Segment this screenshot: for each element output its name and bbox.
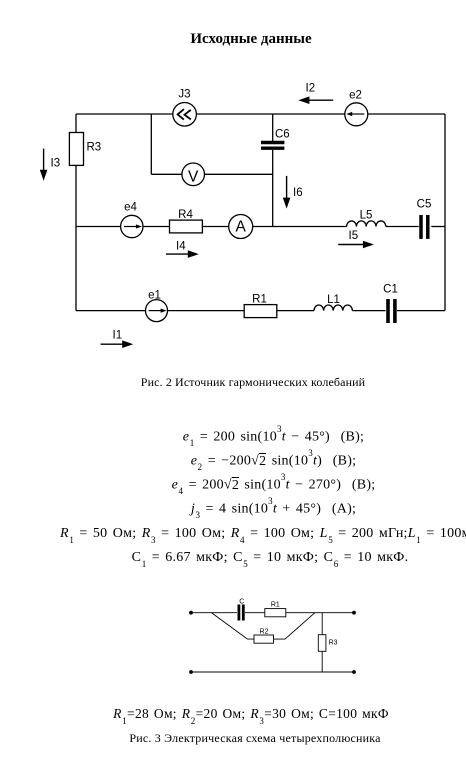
current arrow I2 xyxy=(298,96,333,104)
svg-text:C5: C5 xyxy=(417,199,432,211)
wire top middle segment xyxy=(196,113,344,115)
wire C to R1 xyxy=(245,612,265,614)
svg-text:C6: C6 xyxy=(275,129,290,141)
svg-text:R3: R3 xyxy=(329,640,338,647)
wire e4 to R4 xyxy=(143,226,170,228)
wire R4 to ammeter xyxy=(202,226,229,228)
wire mid-row left segment xyxy=(76,226,121,228)
diagonal wire right xyxy=(274,613,315,639)
svg-text:e4: e4 xyxy=(124,202,137,214)
wire R1 to right terminal xyxy=(286,612,354,614)
inductor L1 xyxy=(314,305,352,311)
current arrow I4 xyxy=(166,250,199,258)
ammeter A xyxy=(229,215,253,239)
resistor R1 xyxy=(265,609,286,617)
wire bottom left segment xyxy=(76,310,146,312)
title xyxy=(18,31,466,48)
wire ammeter to L5 xyxy=(252,226,346,228)
capacitor C xyxy=(239,605,243,621)
current arrow I3 xyxy=(40,149,48,181)
svg-text:R1: R1 xyxy=(271,602,280,609)
wire R1 to L1 xyxy=(277,310,314,312)
wire top right segment xyxy=(368,113,445,115)
resistor R3 xyxy=(69,133,83,166)
wire v-row right xyxy=(205,173,273,175)
svg-text:I2: I2 xyxy=(306,83,316,95)
svg-text:V: V xyxy=(188,168,199,185)
wire left top (to R3) xyxy=(75,114,77,133)
wire C1 to right xyxy=(397,310,445,312)
voltmeter V xyxy=(182,163,205,186)
wire L5 to C5 xyxy=(386,226,419,228)
capacitor C5 xyxy=(421,215,428,239)
svg-text:R1: R1 xyxy=(252,294,267,306)
terminal dot bottom-right xyxy=(352,670,356,674)
svg-text:C: C xyxy=(239,599,244,606)
caption fig 2 xyxy=(20,375,466,390)
wire C6 branch top xyxy=(272,114,274,141)
inductor L5 xyxy=(347,221,386,227)
terminal dot top-right xyxy=(352,611,356,615)
svg-text:I1: I1 xyxy=(113,330,123,342)
svg-text:R3: R3 xyxy=(87,142,102,154)
terminal dot bottom-left xyxy=(189,670,193,674)
svg-text:J3: J3 xyxy=(178,89,190,101)
svg-text:I6: I6 xyxy=(293,187,303,199)
svg-text:A: A xyxy=(236,219,247,236)
svg-text:I3: I3 xyxy=(51,158,61,170)
voltage source e4 xyxy=(121,215,143,237)
wire bottom xyxy=(191,671,354,673)
svg-text:R2: R2 xyxy=(260,629,269,636)
equations xyxy=(40,427,466,446)
wire e1 to R1 xyxy=(168,310,245,312)
current source J3 xyxy=(173,103,197,127)
svg-text:e1: e1 xyxy=(148,290,161,302)
capacitor C6 xyxy=(261,143,284,149)
current arrow I5 xyxy=(338,241,374,249)
svg-text:I4: I4 xyxy=(176,241,186,253)
voltage source e2 xyxy=(345,103,368,126)
wire L1 to C1 xyxy=(352,310,385,312)
svg-text:R4: R4 xyxy=(178,209,193,221)
current arrow I1 xyxy=(101,340,134,348)
wire R3 branch bottom xyxy=(321,651,323,672)
capacitor C1 xyxy=(388,299,395,323)
current arrow I6 xyxy=(283,176,291,209)
svg-text:I5: I5 xyxy=(349,230,359,242)
voltage source e1 xyxy=(146,300,168,322)
wire C5 to right xyxy=(431,226,445,228)
resistor R2 xyxy=(254,635,274,643)
diagonal wire left xyxy=(212,613,255,639)
resistor R3 xyxy=(318,635,326,652)
svg-text:L5: L5 xyxy=(360,210,373,222)
wire R3 branch top xyxy=(321,613,323,635)
svg-text:C1: C1 xyxy=(383,284,398,296)
resistor R1 xyxy=(244,305,277,318)
caption fig 3 xyxy=(22,731,466,746)
svg-text:e2: e2 xyxy=(349,90,362,102)
wire right vertical xyxy=(444,114,446,311)
wire top-left to node xyxy=(191,612,237,614)
bottom values line xyxy=(18,706,466,724)
resistor R4 xyxy=(170,220,203,233)
svg-text:L1: L1 xyxy=(327,294,340,306)
wire left bottom (R3 to bottom) xyxy=(75,165,77,310)
wire top left segment xyxy=(76,113,173,115)
wire v-branch vertical xyxy=(150,114,152,174)
terminal dot top-left xyxy=(189,611,193,615)
wire v-row left xyxy=(151,173,182,175)
wire C6 branch bottom xyxy=(272,150,274,227)
